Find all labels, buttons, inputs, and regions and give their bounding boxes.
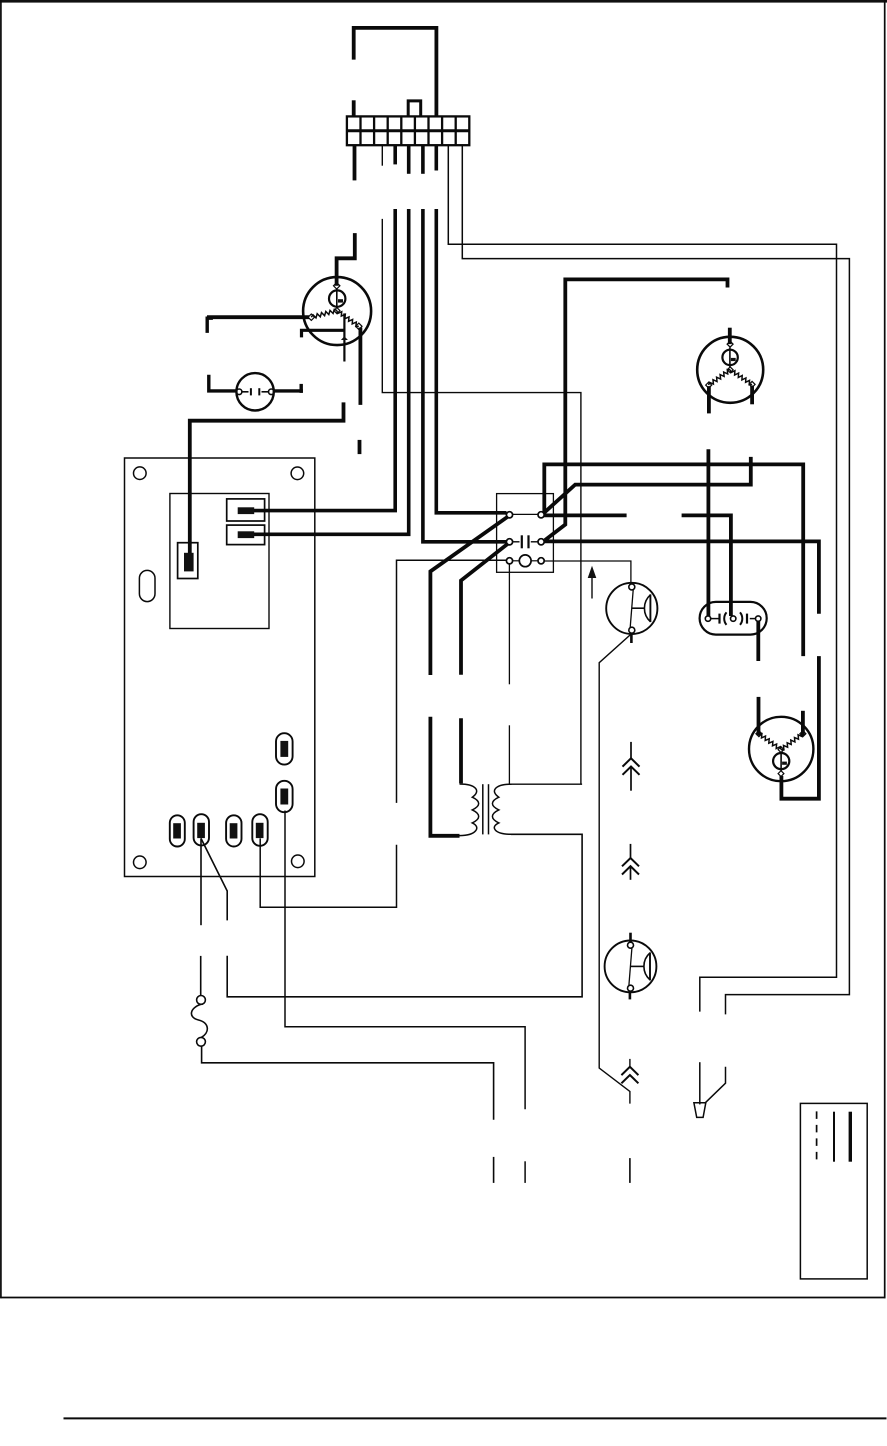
wire T4 path upper segment [397, 560, 508, 803]
motor M2 body circle [749, 717, 813, 781]
capacitor terminal 1 [705, 616, 710, 621]
bottom separator line [64, 1417, 887, 1419]
door switch right terminal [269, 389, 275, 395]
capacitor terminal 2 [731, 616, 736, 621]
wire M1 left winding to left [207, 315, 309, 319]
wire T6 down and right run [285, 811, 525, 1110]
wire PS1 bottom stub [630, 633, 633, 643]
wire door switch right stub up [300, 384, 303, 393]
wire timer row2 right up to motor M3 top [545, 279, 728, 540]
wire pin6 stub [421, 145, 425, 174]
board mounting hole top-left [134, 467, 147, 480]
wire M3 left winding down stub [707, 386, 711, 413]
board inner sub-board rectangle [170, 494, 269, 629]
wire timer row1 right to capacitor segment b [682, 515, 731, 616]
timer row2 capacitor contact symbol [513, 541, 520, 543]
transformer left winding [460, 784, 479, 836]
board vertical terminal black square [184, 553, 194, 572]
connector J1 grid 2x9 [347, 116, 469, 145]
wire big bridge loop above connector (col1 to col7) [354, 28, 437, 117]
motor M1 top node diamond [334, 283, 340, 289]
pressure switch PS2 body circle [605, 941, 657, 993]
motor M2 bottom node diamond [778, 771, 784, 777]
frame border bottom [0, 1297, 885, 1299]
wire timer row1 right to capacitor segment a [544, 514, 627, 518]
timer row1 right terminal [538, 512, 544, 518]
capacitor C stadium outline [700, 602, 767, 635]
board connector B bar [238, 531, 255, 538]
wire pin7 bundle down to timer row1 left [436, 209, 506, 513]
wire capacitor T3 down stub [756, 621, 760, 661]
wire timer row1 right up and across to right side [544, 464, 803, 656]
transformer right winding [492, 784, 511, 834]
wire M3 right winding stub [750, 386, 754, 405]
PS1 blade [630, 590, 633, 628]
motor M3 right winding [730, 370, 752, 385]
frame border left [0, 0, 2, 1298]
transformer T core lines [482, 784, 484, 834]
board stadium terminal T5 [276, 733, 293, 764]
PS1 bottom terminal [629, 627, 635, 633]
wire big bridge left arm lower stub [352, 100, 356, 116]
motor M3 right winding node diamond [749, 381, 755, 387]
wire timer row2 left diagonal down to transformer primary top [461, 544, 508, 675]
PS2 diaphragm horn [631, 965, 644, 967]
motor M3 body circle [697, 337, 763, 403]
frame border top bar [0, 0, 887, 3]
wire timer row1 right diagonal up to motor M3 right winding run [544, 457, 751, 513]
wire pin3 stub thin [381, 145, 383, 166]
wire pin5 stub [407, 145, 411, 174]
board mounting hole top-right [291, 467, 304, 480]
frame border right [884, 0, 886, 1298]
motor M1 left winding node diamond [308, 314, 314, 320]
door switch left terminal [236, 389, 242, 395]
board vertical terminal rect [178, 543, 198, 579]
control board outline [125, 458, 315, 877]
motor M1 left winding [311, 309, 337, 318]
harness arrow 2 [622, 844, 639, 880]
wire timer row3 right to pressure switch PS1 [544, 561, 631, 584]
wire pin9 thin to right side down [462, 145, 849, 1014]
motor M3 left winding [709, 370, 731, 386]
motor M1 right winding [337, 311, 359, 327]
wire lid switch lower segment to transformer return [227, 834, 582, 997]
PS1 actuation arrow [591, 572, 593, 599]
board connector A bar [238, 507, 255, 514]
board stadium terminal T2 [194, 814, 209, 845]
board connector B rect [227, 525, 265, 545]
thermal fuse symbol [197, 996, 206, 1005]
motor M1 center node diamond [334, 308, 340, 314]
timer row3 middle lamp circle [519, 555, 531, 567]
board stadium terminal T1 [170, 815, 185, 846]
wire motor M3 top stub [728, 328, 732, 344]
legend thin line sample [833, 1112, 835, 1162]
wire pin1 harness segment jog to motor M1 top [337, 233, 355, 286]
PS2 blade [629, 948, 632, 985]
wire M3 left winding resume down to capacitor T1 [707, 449, 711, 616]
wire right side lower segment to motor M2 right winding [801, 711, 805, 736]
wire fuse bottom to lower-left run [202, 1046, 494, 1120]
capacitor plates section 2 [740, 612, 742, 624]
motor M2 left winding [759, 734, 781, 750]
wire PS2 bottom stub [629, 991, 632, 999]
wire T2 straight down (lid switch fixed side) [200, 838, 202, 925]
wire start-switch horizontal to centrifugal line [302, 330, 345, 337]
motor M2 left winding node diamond [756, 731, 762, 737]
wire door switch left with up stub [209, 375, 236, 391]
PS1 top terminal [629, 584, 635, 590]
wire pin8 thin to right side down [448, 145, 836, 1011]
wire pin3 thin down then right then down to transformer [382, 219, 581, 784]
thermal fuse upper lead [200, 956, 202, 996]
wire timer row2 right across to motor M2 bottom [544, 541, 819, 613]
wire lower-left run end dash [493, 1157, 495, 1183]
motor M3 thermal protector [722, 348, 737, 368]
wire pin6 bundle down to timer row2 left [423, 209, 507, 542]
wire pin9 lower stub diagonal to plug [705, 1067, 726, 1104]
board stadium terminal T4 [252, 814, 267, 846]
timer row3 left terminal [506, 558, 512, 564]
motor M3 center node diamond [727, 367, 733, 373]
harness arrow 3 [621, 1059, 638, 1083]
PS1 diaphragm horn [632, 607, 645, 609]
legend box [800, 1103, 867, 1279]
wire pin4 bundle down to board connector A [251, 209, 395, 511]
wire timer row3 left down to transformer junction [508, 564, 510, 684]
wire pin5 bundle down to board connector B [251, 209, 409, 534]
motor M2 center node diamond [778, 747, 784, 753]
timer block rectangle [497, 494, 554, 573]
wire PS2 top stub [629, 933, 632, 943]
motor M2 right winding [781, 734, 803, 750]
wire M1 right winding continuation dash [358, 440, 362, 454]
timer row2 left terminal [506, 539, 512, 545]
wire door switch right [274, 389, 303, 392]
door switch contact bars [242, 391, 249, 393]
board stadium terminal T3 [226, 815, 241, 846]
wire T4 down right and up to timer row3 [260, 838, 396, 907]
timer row3 right terminal [538, 558, 544, 564]
board stadium terminal T6 [276, 781, 293, 812]
timer row1 left terminal [506, 512, 512, 518]
wire pin7 stub [434, 145, 438, 170]
wire M2 left winding up stub [757, 697, 761, 736]
motor M2 right winding node diamond [800, 731, 806, 737]
lid switch blade diagonal from T2 [201, 838, 227, 920]
timer row2 right terminal [538, 539, 544, 545]
motor M3 left winding node diamond [706, 382, 712, 388]
PS2 top terminal [628, 942, 634, 948]
transformer secondary top lead to junction [510, 783, 582, 785]
board left oval slot [139, 570, 155, 601]
board mounting hole bottom-right [292, 855, 305, 868]
wire bottom feed from board square terminal [190, 402, 344, 562]
M1 centrifugal switch line with up arrow [343, 313, 345, 361]
PS2 bottom terminal [628, 985, 634, 991]
wire PS1 bypass diagonal and long drop [599, 634, 631, 1104]
wire T6 run end dash [524, 1161, 526, 1183]
wire bottom run end dash center [629, 1158, 631, 1183]
legend thick line sample [849, 1112, 852, 1162]
board connector A rect [227, 499, 265, 521]
capacitor terminal 3 [756, 616, 761, 621]
wire pin8 lower stub to plug [699, 1062, 701, 1104]
motor M1 right winding node diamond [356, 323, 362, 329]
pressure switch PS1 body circle [606, 583, 657, 634]
legend dashed line sample [816, 1111, 818, 1162]
wire small bridge loop above connector (col5 to col6) [408, 101, 421, 117]
capacitor plates section 1 [711, 618, 719, 620]
wire pin4 stub [393, 145, 397, 164]
timer row1 contact line [513, 513, 538, 515]
door switch DS body circle [236, 373, 273, 410]
harness arrow 1 [623, 742, 640, 791]
motor M2 thermal protector [773, 752, 789, 772]
timer row3 links [513, 560, 520, 562]
power cord plug symbol [694, 1103, 706, 1118]
wire M1 right winding down stub [358, 328, 362, 405]
wire left corner stub upper [207, 318, 213, 333]
wire timer row1 left diagonal down to transformer primary left [430, 517, 508, 676]
board mounting hole bottom-left [134, 856, 147, 869]
wire pin1 stub below connector [353, 145, 357, 180]
motor M1 thermal protector [329, 288, 345, 309]
motor M3 top node diamond [727, 341, 733, 347]
motor M1 body circle [303, 277, 371, 345]
